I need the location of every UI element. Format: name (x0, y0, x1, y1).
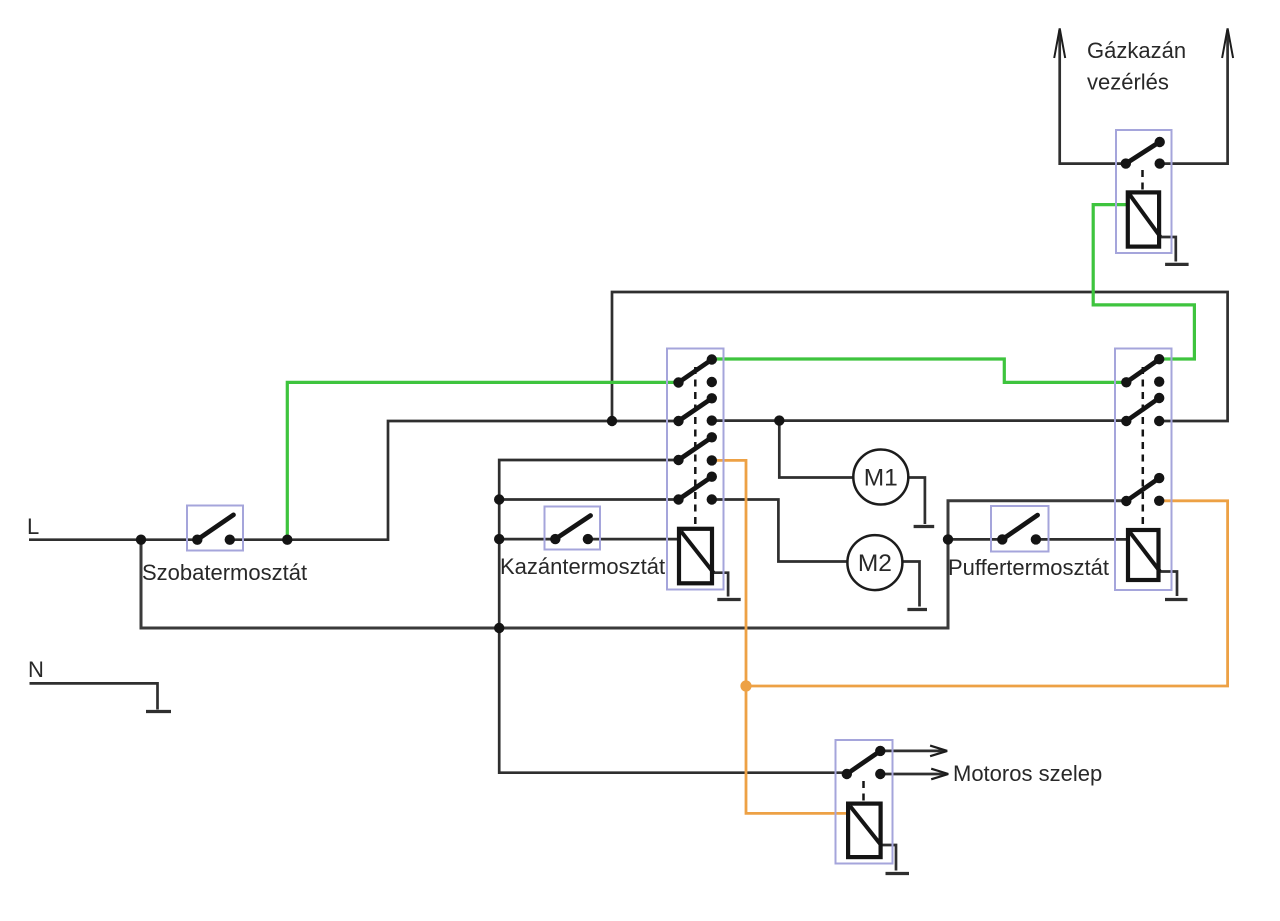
wire Kazantermosztat to relay K1 coil (588, 538, 681, 541)
motor M1 (853, 450, 908, 505)
relay K1 contact 3 (673, 432, 717, 466)
wire M2 to ground (902, 562, 919, 607)
arrow Motoros szelep upper (880, 746, 947, 757)
svg-text:M2: M2 (858, 550, 892, 577)
arrow Motoros szelep lower (880, 769, 948, 780)
ground K3 (1165, 263, 1189, 266)
junction N-rail / Puffertermosztat branch (943, 534, 953, 544)
label Gazkazan vezerles (1087, 38, 1186, 95)
wire orange relay K1 contact3 output down to relay K4 coil (712, 460, 850, 813)
svg-text:Gázkazán: Gázkazán (1087, 38, 1186, 63)
relay K3 box (gas boiler) (1116, 130, 1172, 253)
wire green from L tap up to relay K1 contact1 pivot (287, 382, 676, 539)
ground K1 (717, 598, 740, 601)
relay K4 coil (848, 804, 881, 858)
relay K4 box (Motoros szelep) (836, 740, 893, 864)
svg-text:vezérlés: vezérlés (1087, 70, 1169, 95)
wire from Szobatermosztat switch to riser and over to relay K1 contact 2 (230, 421, 677, 540)
wire K2 coil to ground (1160, 572, 1177, 597)
relay K3 dashed actuator link (1141, 170, 1144, 192)
ground M2 (907, 608, 927, 611)
wire feeder branch to relay K1 contact 4 (499, 498, 677, 501)
wire Puffertermosztat to relay K2 coil (1036, 538, 1130, 541)
junction N-rail / feeder vertical (494, 623, 504, 633)
svg-text:Puffertermosztát: Puffertermosztát (948, 555, 1109, 580)
junction green tap on L wire (282, 535, 292, 545)
wire branch to Puffertermosztat (948, 538, 1002, 541)
relay K2 dashed actuator link (1142, 367, 1145, 527)
wire top loop from L bus up and over to relay K2 contact 2 output (612, 292, 1228, 421)
wire green relay K1 contact1 output to relay K2 contact1 pivot (712, 359, 1124, 382)
ground K2 (1165, 598, 1188, 601)
svg-text:Szobatermosztát: Szobatermosztát (142, 560, 307, 585)
switch Szobatermosztat box (187, 506, 243, 551)
relay K3 contact (1121, 137, 1165, 169)
wire L feed horizontal (29, 538, 197, 541)
junction feeder / Kazan branch (494, 534, 504, 544)
arrow to gas boiler control right (1161, 28, 1233, 163)
svg-text:L: L (27, 514, 39, 539)
wire branch to motor M1 (779, 421, 853, 478)
junction M1 branch (774, 415, 784, 425)
ground K4 (886, 872, 910, 875)
relay K2 contact 2 (1121, 393, 1164, 426)
wire K3 coil to ground (1160, 237, 1176, 262)
wire feeder vertical to relay K1 contact 3 and Motoros szelep relay (499, 460, 846, 773)
junction feeder / contact4 branch (494, 494, 504, 504)
relay K1 contact 1 (673, 354, 717, 387)
relay K2 contact 3 (1121, 473, 1164, 506)
relay K1 coil (679, 529, 714, 584)
relay K2 box (right) (1115, 349, 1172, 591)
wire green relay K2 contact1 output to relay K3 coil (1093, 205, 1194, 359)
svg-text:N: N (28, 657, 44, 682)
wire relay K1 contact2 output to relay K2 contact2 pivot (712, 419, 1126, 422)
svg-text:M1: M1 (864, 465, 898, 492)
switch Szobatermosztat contact (192, 515, 235, 545)
switch Puffertermosztat box (991, 506, 1049, 552)
relay K2 contact 1 (1121, 354, 1164, 387)
junction L wire / N-rail (136, 535, 146, 545)
wire K1 coil to ground (713, 573, 728, 597)
relay K4 dashed actuator link (862, 781, 865, 803)
svg-text:Motoros szelep: Motoros szelep (953, 761, 1102, 786)
relay K1 dashed actuator link (694, 367, 697, 527)
relay K1 contact 4 (673, 472, 717, 505)
relay K1 box (middle) (667, 349, 724, 590)
junction orange (740, 680, 751, 691)
switch Kazantermosztat contact (550, 516, 593, 545)
wire relay K1 contact4 output to motor M2 (712, 500, 848, 562)
switch Puffertermosztat contact (997, 515, 1041, 545)
wire feeder branch to Kazantermosztat (499, 538, 555, 541)
wire N lead (30, 683, 158, 709)
wire orange relay K2 contact3 output loop (746, 501, 1228, 686)
relay K3 coil (1128, 192, 1161, 246)
relay K2 coil (1128, 530, 1160, 580)
ground M1 (914, 525, 935, 528)
arrow to gas boiler control left (1054, 28, 1124, 163)
switch Kazantermosztat box (545, 507, 601, 550)
wire K4 coil to ground (881, 845, 896, 871)
wire M1 to ground (908, 478, 925, 525)
svg-text:Kazántermosztát: Kazántermosztát (500, 554, 665, 579)
motor M2 (847, 535, 902, 590)
junction top loop on L bus (607, 416, 617, 426)
relay K4 contact (842, 746, 886, 780)
terminal bar N (146, 710, 171, 713)
relay K1 contact 2 (673, 393, 717, 426)
wire N-rail from L junction down and right then up to relay K2 contact 3 (141, 501, 1125, 628)
